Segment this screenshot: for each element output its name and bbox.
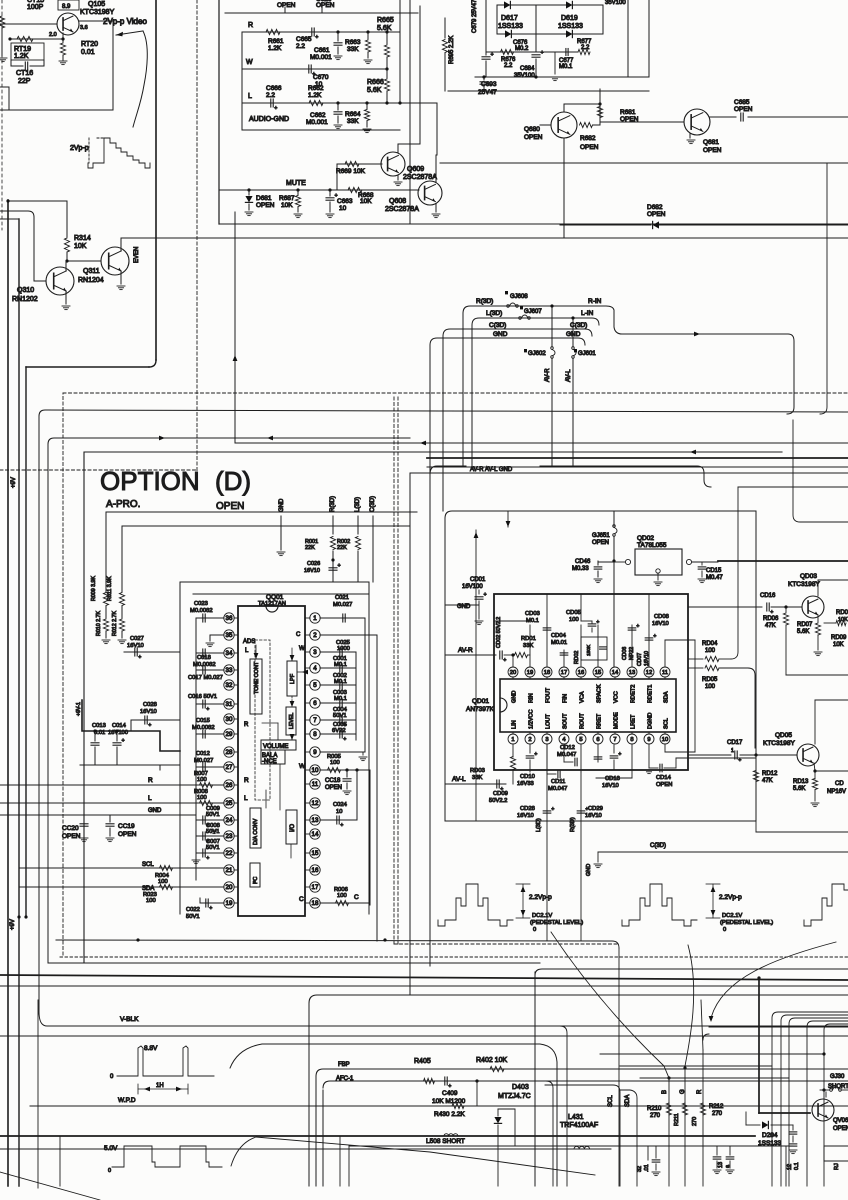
svg-text:GJ608: GJ608 (510, 294, 528, 300)
svg-text:M0.33: M0.33 (572, 566, 589, 572)
svg-text:C017 M0.027: C017 M0.027 (188, 675, 223, 681)
svg-text:1.2K: 1.2K (308, 92, 322, 99)
resistor R005 (320, 769, 356, 771)
capacitor C662 (336, 101, 339, 104)
pin 25 QQ01 (224, 798, 234, 808)
capacitor C024 (320, 819, 348, 821)
svg-text:D681: D681 (256, 195, 272, 202)
svg-text:CD06: CD06 (622, 647, 628, 660)
svg-text:L(3D): L(3D) (536, 818, 542, 832)
transistor QV06 (812, 1099, 834, 1121)
wire loop right (787, 334, 794, 414)
wire Q310 collector (65, 261, 67, 271)
svg-text:+: + (315, 35, 318, 41)
wire x786 vertical bottom (785, 1146, 787, 1186)
ground bridge (554, 52, 556, 74)
svg-text:C016 50V1: C016 50V1 (188, 694, 217, 700)
svg-text:21: 21 (226, 867, 233, 874)
svg-text:R402 10K: R402 10K (476, 1057, 507, 1064)
resistor R023 (160, 884, 173, 889)
svg-text:OPEN: OPEN (647, 211, 666, 218)
pin 2 QQ01 (310, 630, 320, 640)
svg-text:R405: R405 (414, 1058, 431, 1065)
svg-text:0: 0 (533, 927, 536, 933)
svg-text:M0.027: M0.027 (194, 758, 213, 764)
svg-text:R010 2.7K: R010 2.7K (96, 611, 102, 636)
svg-text:8: 8 (630, 737, 633, 743)
wire pin13 link (348, 819, 357, 821)
block LEVEL (286, 707, 296, 735)
svg-text:7: 7 (313, 717, 317, 724)
svg-text:50V1: 50V1 (333, 713, 347, 719)
svg-text:W: W (299, 646, 305, 652)
diode D682 (653, 221, 659, 228)
wire x340 bottom vertical (339, 1136, 341, 1186)
transistor Q311 (101, 247, 129, 275)
svg-text:5: 5 (313, 682, 317, 689)
svg-text:C024: C024 (333, 802, 348, 808)
svg-text:13: 13 (312, 817, 319, 824)
svg-text:RD02: RD02 (574, 651, 580, 664)
svg-text:R666: R666 (367, 79, 384, 86)
pin 5 QD01 ROUT (576, 734, 586, 744)
svg-text:22K: 22K (337, 545, 347, 551)
svg-text:RD12: RD12 (762, 771, 778, 777)
wire bridge verticals (496, 5, 498, 34)
wire SDA line (19, 886, 224, 888)
wire QD03 collector (817, 580, 819, 596)
svg-text:RD07: RD07 (797, 622, 813, 628)
svg-text:16V10: 16V10 (585, 813, 602, 819)
wire bus y975 thick (0, 975, 848, 980)
resistor R681 (599, 89, 601, 118)
svg-text:0: 0 (723, 927, 726, 933)
svg-text:FBP: FBP (338, 1062, 350, 1068)
wire OPTION dashed box (62, 393, 64, 955)
svg-text:TA78L055: TA78L055 (637, 542, 667, 549)
svg-text:OPEN: OPEN (592, 540, 609, 546)
svg-text:SDA: SDA (664, 691, 670, 703)
svg-text:3: 3 (545, 737, 548, 743)
transistor QD03 (802, 596, 824, 618)
svg-text:2: 2 (313, 632, 317, 639)
resistor RD02 network (581, 637, 607, 660)
resistor RT20 (60, 43, 65, 55)
wire x38 lower (37, 1000, 39, 1188)
wire left bus (7, 200, 9, 1186)
pin 13 QD01 RDET2 (627, 667, 637, 677)
svg-text:35V100: 35V100 (514, 73, 535, 79)
wire R314 to Q311 (66, 252, 68, 261)
pin 12 QD01 RDET1 (644, 667, 654, 677)
svg-text:C028: C028 (143, 702, 157, 708)
resistor R669 (337, 163, 382, 165)
svg-text:C670: C670 (313, 74, 329, 81)
svg-text:VOLUME: VOLUME (263, 744, 288, 750)
svg-text:33K: 33K (347, 46, 359, 53)
svg-text:R-IN: R-IN (588, 298, 602, 305)
svg-text:10K: 10K (281, 202, 293, 209)
svg-text:V-BLK: V-BLK (120, 1016, 139, 1023)
wire SCL drop (545, 1085, 620, 1186)
wire swoosh to y1043 (230, 1044, 557, 1186)
annotation arrow 2Vp-p video (116, 31, 143, 35)
wire GND line QQ01 (0, 814, 196, 816)
pin 16 QD01 VCA (576, 667, 586, 677)
svg-text:KTC3198Y: KTC3198Y (80, 9, 115, 16)
svg-text:+: + (503, 658, 506, 664)
wire internal dashed (255, 640, 270, 800)
box RT19 label (11, 43, 44, 60)
resistor R676 (501, 49, 514, 54)
svg-text:C661: C661 (314, 47, 330, 54)
svg-text:OPEN: OPEN (833, 1126, 848, 1132)
svg-text:QD02: QD02 (637, 535, 654, 542)
wire bridge row1 (497, 4, 603, 6)
capacitor CD204 (792, 1125, 794, 1130)
svg-text:I/O: I/O (290, 824, 296, 832)
svg-text:(D): (D) (215, 466, 251, 496)
svg-text:16V10: 16V10 (517, 813, 534, 819)
diode D619 top (566, 1, 572, 8)
svg-text:19: 19 (527, 670, 533, 676)
capacitor C409 (444, 1077, 446, 1085)
wire pin11 SDA up (664, 640, 666, 667)
pin 16 QQ01 (310, 865, 320, 875)
wire x357 link (356, 770, 358, 820)
svg-text:100: 100 (197, 777, 207, 783)
wire OPTION box bottom ext (48, 962, 540, 964)
svg-text:D403: D403 (512, 1084, 529, 1091)
svg-text:M0.0082: M0.0082 (192, 725, 215, 731)
wire y1146 right (349, 1145, 793, 1147)
wire dashed bottom bus (60, 956, 848, 958)
svg-text:RD03: RD03 (470, 768, 485, 774)
svg-text:C026: C026 (307, 561, 320, 567)
diode D617 top (504, 1, 510, 8)
wire long line y163 (440, 162, 848, 164)
svg-text:M0.1: M0.1 (559, 64, 573, 70)
svg-text:W: W (299, 763, 306, 770)
svg-text:1: 1 (511, 737, 514, 743)
svg-text:QD01: QD01 (472, 698, 489, 705)
wire left rail x196 (195, 618, 197, 880)
svg-text:9: 9 (313, 749, 317, 756)
svg-text:16V10: 16V10 (652, 621, 669, 627)
svg-text:1SS133: 1SS133 (558, 23, 583, 30)
arrow down into QD box (507, 511, 509, 527)
resistor R687 (297, 190, 299, 195)
wire Q311 collector (120, 238, 122, 251)
wire R(3D) down (580, 772, 582, 940)
svg-text:CT16: CT16 (16, 70, 33, 77)
svg-text:KTC3198Y: KTC3198Y (788, 581, 820, 588)
svg-text:C: C (299, 896, 304, 903)
pin 7 QQ01 (310, 715, 320, 725)
wire y1066 line (620, 1065, 772, 1067)
svg-text:+9V: +9V (10, 919, 16, 930)
svg-text:6V22: 6V22 (332, 728, 346, 734)
pin 35 QQ01 (224, 630, 234, 640)
wire right bundle (772, 1012, 848, 1186)
capacitor CD09 (496, 780, 498, 788)
svg-text:18: 18 (544, 670, 550, 676)
wire corner x553 (546, 1081, 553, 1186)
pin 17 QQ01 (310, 882, 320, 892)
wire pin2 C line (320, 634, 377, 636)
svg-text:AV-R: AV-R (545, 368, 551, 382)
svg-text:15: 15 (312, 850, 319, 857)
svg-text:OPTION: OPTION (100, 466, 200, 496)
diode D619 bottom (566, 30, 572, 37)
wire QD05 box top (815, 699, 848, 701)
capacitor C023 (196, 617, 224, 619)
resistor R668 (340, 189, 419, 191)
svg-text:CD03: CD03 (525, 611, 540, 617)
svg-text:47K: 47K (762, 778, 773, 784)
capacitor C001 (320, 667, 356, 669)
svg-text:50V1: 50V1 (206, 845, 220, 851)
capacitor C016 (196, 703, 224, 705)
svg-text:11: 11 (312, 781, 319, 788)
pin 31 QQ01 (224, 699, 234, 709)
svg-text:3: 3 (313, 649, 317, 656)
wire FBP line (316, 1069, 848, 1076)
svg-text:11: 11 (662, 670, 668, 676)
wire R009 feed (106, 511, 417, 513)
svg-text:CD09: CD09 (493, 791, 508, 797)
pin 19 QQ01 (224, 898, 234, 908)
svg-text:CD05: CD05 (566, 610, 581, 616)
capacitor C009 (196, 819, 224, 821)
svg-text:OPEN: OPEN (325, 785, 342, 791)
wire dashed pair x394 (393, 397, 395, 944)
svg-text:VCC: VCC (614, 691, 620, 703)
svg-text:+: + (340, 823, 343, 829)
svg-text:RD09: RD09 (831, 635, 847, 641)
svg-text:Q310: Q310 (17, 287, 34, 294)
svg-text:C021: C021 (335, 595, 349, 601)
curve sweep 2 G line (685, 945, 694, 1066)
svg-text:35V100: 35V100 (605, 0, 626, 6)
svg-text:R(3D): R(3D) (476, 298, 493, 305)
svg-text:16V10: 16V10 (127, 643, 144, 649)
svg-text:1.2K: 1.2K (14, 53, 29, 60)
capacitor CD10 (529, 745, 531, 753)
wire Q310 base (0, 210, 28, 212)
node y975 (757, 976, 760, 979)
block TONE CONT (250, 659, 262, 714)
capacitor C022 (200, 902, 224, 904)
capacitor C666 (270, 99, 272, 107)
dimension 1H (138, 1088, 188, 1090)
svg-text:R: R (148, 777, 153, 784)
pin 6 QD01 RRET (593, 734, 603, 744)
svg-text:10K: 10K (74, 243, 87, 250)
pin 10 QD01 SCL (660, 734, 670, 744)
pin 14 QD01 VCC (610, 667, 620, 677)
svg-text:M0.047: M0.047 (557, 752, 576, 758)
svg-text:Q681: Q681 (703, 139, 719, 146)
svg-text:8.9: 8.9 (62, 4, 71, 10)
wire bus y443 (235, 442, 848, 444)
wire x827 vertical (820, 163, 827, 414)
svg-text:C(3D): C(3D) (650, 843, 666, 849)
pin 9 QQ01 (310, 747, 320, 757)
svg-text:+: + (653, 633, 656, 639)
wire pin20 up (512, 655, 514, 667)
svg-text:GND: GND (457, 604, 471, 610)
svg-text:33: 33 (226, 667, 233, 674)
wire audio box top (225, 12, 418, 14)
pin 10 QQ01 (310, 765, 320, 775)
svg-text:R(3D): R(3D) (570, 817, 576, 832)
svg-text:CD11: CD11 (551, 779, 565, 785)
block I/O (286, 810, 297, 844)
svg-text:MTZJ4.7C: MTZJ4.7C (498, 1093, 531, 1100)
svg-text:23: 23 (226, 833, 233, 840)
svg-text:TRF4100AF: TRF4100AF (560, 1122, 598, 1129)
wire +9V rail (25, 367, 27, 917)
svg-text:C: C (296, 632, 301, 638)
wire video box bottom (0, 109, 113, 111)
svg-text:100: 100 (158, 879, 168, 885)
svg-text:R: R (244, 777, 249, 784)
svg-text:Q680: Q680 (524, 126, 540, 133)
pin 28 QQ01 (224, 747, 234, 757)
wire video box right (155, 0, 157, 360)
pin 36 QQ01 (224, 613, 234, 623)
IC QQ01 body (238, 606, 305, 916)
svg-text:M0.1: M0.1 (334, 696, 347, 702)
svg-text:2.2: 2.2 (581, 45, 590, 51)
svg-text:50V1: 50V1 (186, 914, 200, 920)
svg-text:R663: R663 (345, 39, 361, 46)
capacitor CT16 (10, 60, 12, 66)
svg-text:R211: R211 (674, 1113, 680, 1126)
wire right vertical x793 (793, 420, 848, 522)
wire C409 node (475, 1079, 478, 1082)
wire C013 bottom rail (80, 764, 180, 766)
pin 2 QD01 1/2VCC (525, 734, 535, 744)
wire left bus 2 (0, 218, 19, 220)
svg-text:2: 2 (528, 737, 531, 743)
pin 8 QQ01 (310, 729, 320, 739)
svg-text:C409: C409 (442, 1090, 458, 1097)
wire bus y995 (309, 995, 848, 1003)
svg-text:10K: 10K (838, 617, 848, 623)
wire pin7 down (597, 745, 599, 762)
wire x235 vertical (234, 212, 236, 443)
svg-text:NP16V: NP16V (827, 789, 846, 795)
svg-text:I²C: I²C (253, 877, 259, 884)
wire GND line (430, 338, 585, 345)
svg-text:GJ602: GJ602 (528, 351, 546, 357)
wire C(3D) line (443, 329, 592, 336)
wire L line (242, 102, 437, 104)
wire Q105 base (0, 23, 57, 25)
svg-text:7: 7 (613, 737, 616, 743)
ground mid rail (159, 765, 161, 770)
capacitor CD13 (613, 745, 615, 753)
wire thick right L (758, 978, 760, 1113)
svg-text:GJ651: GJ651 (592, 533, 610, 539)
svg-text:4: 4 (313, 665, 317, 672)
wire C3D bottom line (598, 851, 848, 853)
wire bridge row2 (497, 33, 603, 35)
wire Q680 down (563, 138, 565, 238)
wire bus y473 (410, 472, 848, 474)
svg-text:C685: C685 (734, 99, 750, 106)
svg-text:D619: D619 (561, 15, 578, 22)
svg-text:C013: C013 (92, 723, 106, 729)
jumper GJ30 (830, 1089, 833, 1092)
wire R(3D) R-IN line (463, 306, 606, 313)
svg-text:M0.0082: M0.0082 (193, 662, 216, 668)
svg-text:10: 10 (312, 767, 319, 774)
wire dashed x197 (196, 0, 198, 471)
svg-text:3.6: 3.6 (80, 25, 88, 31)
pin 23 QQ01 (224, 831, 234, 841)
svg-text:OPEN: OPEN (118, 831, 137, 838)
svg-text:270: 270 (712, 1111, 723, 1117)
resistor R402 (490, 1066, 504, 1071)
diode D403 zener (498, 1109, 515, 1146)
pin 22 QQ01 (224, 848, 234, 858)
svg-text:C(3D): C(3D) (489, 322, 506, 329)
waveform pulses middle (622, 884, 697, 926)
svg-text:100: 100 (337, 893, 347, 899)
svg-text:D682: D682 (647, 204, 663, 211)
svg-text:R669 10K: R669 10K (336, 168, 366, 175)
wire AFC-1 line (323, 1081, 848, 1088)
block VOLUME BALANCE (261, 740, 296, 750)
svg-text:QQ01: QQ01 (266, 594, 284, 601)
wire dashed y470 (0, 469, 197, 471)
svg-text:C: C (354, 894, 359, 901)
svg-text:20: 20 (226, 884, 233, 891)
capacitor C002 (320, 684, 356, 686)
wire pin2 drop x377 (376, 635, 378, 941)
resistor R001 (330, 537, 335, 550)
svg-text:R012 2.7K: R012 2.7K (112, 611, 118, 636)
capacitor C008 (196, 835, 224, 837)
svg-text:270: 270 (650, 1113, 661, 1119)
wire Q680 base (540, 124, 551, 126)
svg-text:RD01: RD01 (521, 636, 536, 642)
svg-text:6: 6 (596, 737, 599, 743)
svg-text:CC20: CC20 (62, 825, 79, 832)
svg-text:OPEN: OPEN (256, 202, 275, 209)
svg-text:+: + (636, 623, 639, 629)
pin 1 QD01 LIN (508, 734, 518, 744)
svg-text:16: 16 (578, 670, 584, 676)
svg-text:22K: 22K (305, 545, 315, 551)
svg-text:QD03: QD03 (800, 573, 817, 580)
svg-text:L508 SHORT: L508 SHORT (426, 1138, 465, 1145)
svg-text:R: R (697, 1089, 703, 1094)
wire bus y410 (39, 410, 848, 416)
svg-text:100: 100 (705, 648, 716, 654)
wire bridge rail y77 (475, 76, 649, 78)
transistor QD05 (797, 744, 819, 766)
svg-text:M0.001: M0.001 (306, 119, 328, 126)
svg-text:1000: 1000 (337, 646, 350, 652)
ground pin9 (355, 734, 357, 740)
svg-text:M0.047: M0.047 (548, 786, 567, 792)
svg-text:Q608: Q608 (389, 198, 406, 205)
wire QQ01 outer box (180, 582, 369, 914)
